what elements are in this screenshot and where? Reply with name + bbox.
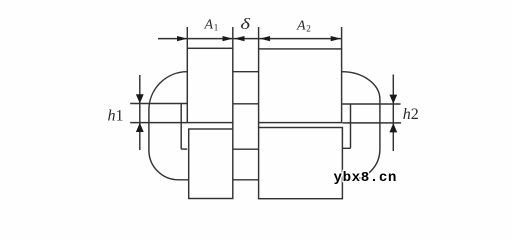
arrow h1 down bbox=[136, 94, 144, 103]
dimension line top bbox=[158, 38, 341, 40]
right inner notch stub bbox=[342, 147, 351, 149]
core lower-left bbox=[189, 129, 233, 199]
extension line x=341 bbox=[341, 27, 343, 49]
mid vertical right bbox=[258, 123, 260, 128]
gap rung lower bbox=[233, 148, 259, 150]
extension line x=233 bbox=[232, 27, 234, 49]
arrow h2 up bbox=[389, 123, 397, 132]
svg-text:ybx8.cn: ybx8.cn bbox=[334, 170, 397, 186]
arrow delta left bbox=[234, 36, 244, 41]
extension line x=259 bbox=[258, 27, 260, 49]
arrow A1 right bbox=[223, 36, 233, 41]
watermark ybx8.cn bbox=[334, 170, 397, 186]
core upper-right bbox=[259, 49, 342, 123]
h1 leader vertical bbox=[139, 75, 141, 150]
svg-text:1: 1 bbox=[214, 23, 219, 33]
svg-text:2: 2 bbox=[306, 24, 311, 34]
arrow h1 up bbox=[136, 123, 144, 132]
right inner notch vertical bbox=[350, 104, 352, 148]
svg-text:δ: δ bbox=[240, 16, 250, 33]
extension line x=187 bbox=[186, 27, 188, 49]
core lower-right bbox=[259, 128, 343, 199]
arrow A1 left bbox=[177, 36, 187, 41]
left pole slot bottom line bbox=[130, 122, 187, 124]
svg-text:h1: h1 bbox=[108, 107, 124, 124]
left inner notch vertical bbox=[180, 104, 182, 150]
arrow h2 down bbox=[389, 95, 397, 104]
gap rung upper bbox=[233, 103, 259, 105]
h2 leader vertical bbox=[392, 75, 394, 152]
yoke stadium outline bbox=[149, 72, 380, 180]
right pole slot top line bbox=[342, 103, 401, 105]
mid vertical left bbox=[232, 123, 234, 129]
arrow A2 right bbox=[331, 36, 341, 41]
arrow A2 left bbox=[260, 36, 270, 41]
svg-text:h2: h2 bbox=[403, 106, 419, 123]
svg-text:A: A bbox=[296, 19, 306, 34]
left inner notch stub bbox=[181, 148, 187, 150]
svg-text:A: A bbox=[204, 18, 214, 33]
right pole slot bottom line bbox=[342, 122, 401, 124]
left pole slot top line bbox=[130, 103, 187, 105]
core upper-left bbox=[187, 48, 233, 122]
